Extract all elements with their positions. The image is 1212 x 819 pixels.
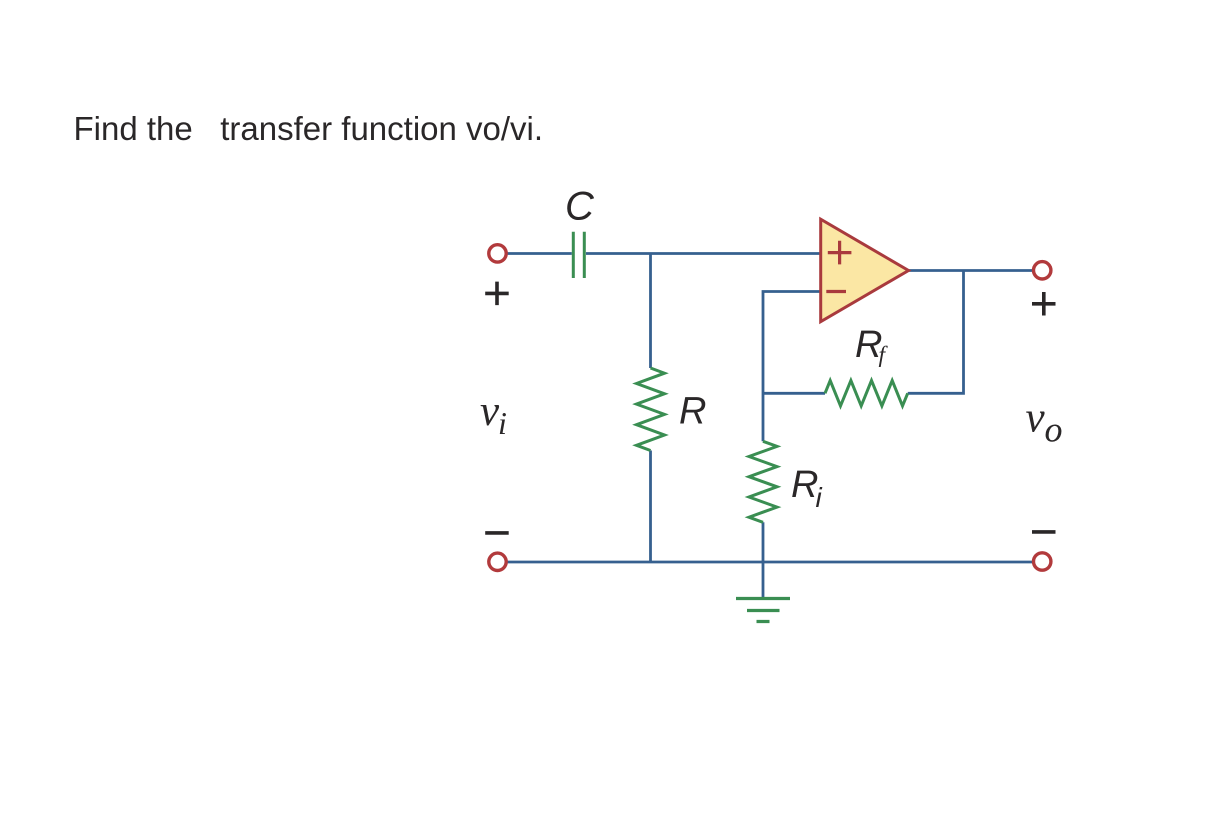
- svg-text:o: o: [1045, 410, 1063, 450]
- svg-text:R: R: [679, 391, 706, 433]
- svg-text:v: v: [480, 388, 500, 435]
- svg-text:i: i: [498, 405, 507, 441]
- svg-text:Find the transfer function v: Find the transfer function vo/vi.: [74, 110, 544, 147]
- svg-text:v: v: [1026, 395, 1046, 442]
- svg-text:f: f: [879, 342, 889, 368]
- svg-text:R: R: [791, 464, 818, 506]
- svg-text:C: C: [565, 185, 595, 229]
- svg-text:i: i: [816, 482, 823, 513]
